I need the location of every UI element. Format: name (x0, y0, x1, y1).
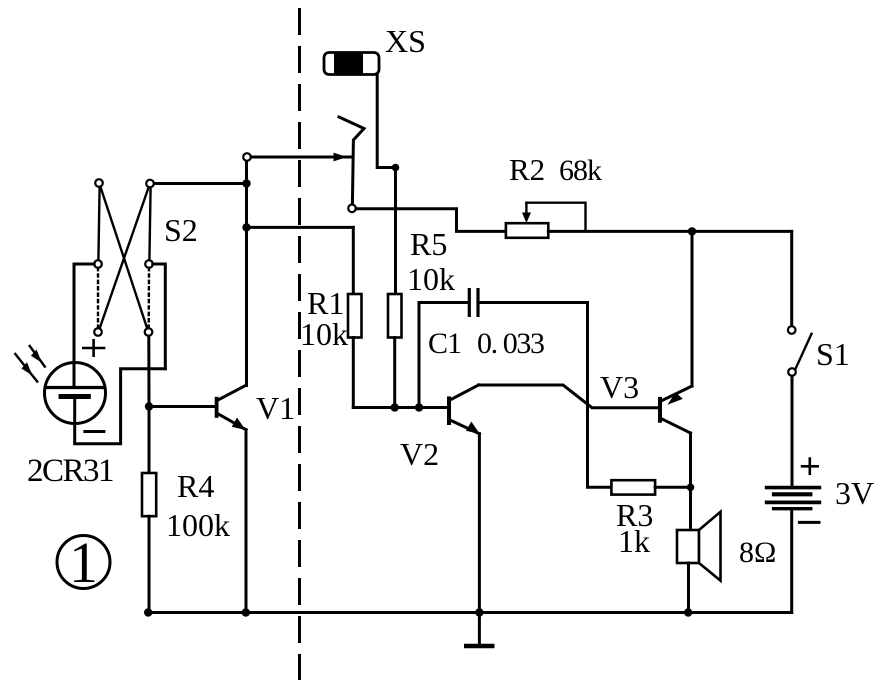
svg-text:C1: C1 (428, 327, 461, 360)
svg-text:8Ω: 8Ω (739, 536, 776, 569)
svg-text:R2: R2 (509, 152, 545, 187)
svg-text:S2: S2 (164, 212, 198, 248)
svg-text:68k: 68k (559, 154, 602, 187)
svg-text:V2: V2 (400, 436, 439, 472)
svg-text:1: 1 (69, 530, 98, 595)
svg-text:10k: 10k (300, 316, 348, 352)
svg-text:S1: S1 (816, 336, 850, 372)
svg-text:R4: R4 (177, 468, 214, 504)
svg-text:100k: 100k (166, 507, 230, 543)
svg-text:V1: V1 (256, 390, 295, 426)
svg-text:1k: 1k (618, 523, 650, 559)
svg-text:XS: XS (385, 23, 426, 59)
svg-text:V3: V3 (600, 369, 639, 405)
svg-text:10k: 10k (407, 261, 455, 297)
svg-text:R5: R5 (410, 226, 447, 262)
svg-text:2CR31: 2CR31 (27, 453, 113, 489)
svg-text:0. 033: 0. 033 (477, 327, 544, 360)
svg-text:3V: 3V (835, 475, 874, 511)
